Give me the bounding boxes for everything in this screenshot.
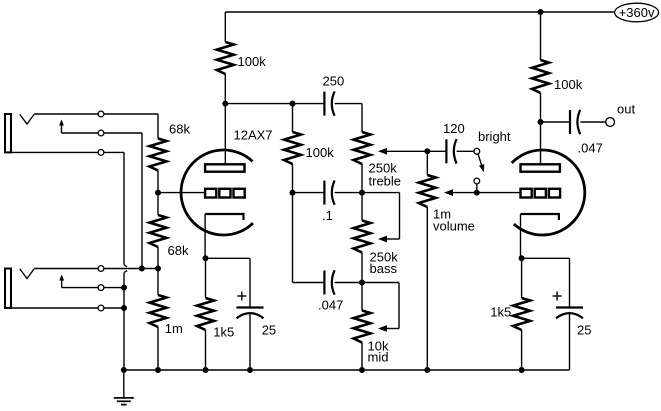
svg-text:250: 250 bbox=[323, 74, 345, 89]
svg-text:1k5: 1k5 bbox=[490, 305, 511, 320]
svg-text:100k: 100k bbox=[238, 54, 267, 69]
svg-text:12AX7: 12AX7 bbox=[234, 128, 273, 143]
svg-text:.047: .047 bbox=[578, 141, 603, 156]
svg-text:120: 120 bbox=[443, 121, 465, 136]
svg-text:100k: 100k bbox=[306, 145, 335, 160]
svg-text:bass: bass bbox=[370, 261, 398, 276]
svg-text:.047: .047 bbox=[318, 298, 343, 313]
svg-text:68k: 68k bbox=[169, 122, 190, 137]
svg-text:100k: 100k bbox=[554, 77, 583, 92]
svg-text:1k5: 1k5 bbox=[213, 325, 234, 340]
svg-text:25: 25 bbox=[577, 323, 591, 338]
svg-text:+360v: +360v bbox=[619, 5, 655, 20]
svg-text:25: 25 bbox=[262, 323, 276, 338]
svg-text:volume: volume bbox=[433, 219, 475, 234]
svg-text:.1: .1 bbox=[322, 208, 333, 223]
svg-text:1m: 1m bbox=[165, 321, 183, 336]
svg-text:treble: treble bbox=[369, 174, 402, 189]
svg-text:out: out bbox=[617, 102, 635, 117]
svg-text:mid: mid bbox=[368, 350, 389, 365]
svg-text:68k: 68k bbox=[168, 243, 189, 258]
svg-text:bright: bright bbox=[478, 129, 511, 144]
